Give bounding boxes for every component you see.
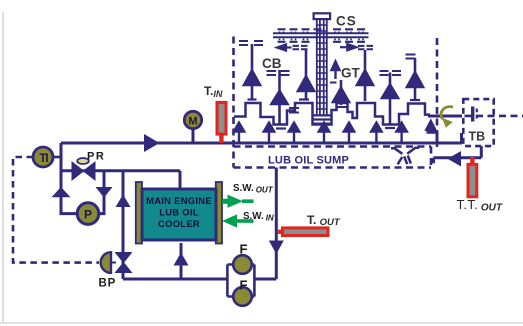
svg-text:F: F bbox=[240, 278, 248, 293]
crankpin cap lower bbox=[276, 127, 286, 129]
svg-text:BP: BP bbox=[99, 278, 117, 290]
filter F2 bbox=[233, 287, 252, 306]
pump P bbox=[77, 203, 99, 225]
rotation curved arrow (olive) bbox=[441, 107, 453, 128]
svg-text:CS: CS bbox=[336, 14, 357, 29]
feed arrow 7 bbox=[396, 123, 406, 142]
journal cap x306 bbox=[299, 98, 309, 100]
slide edge left bbox=[2, 12, 4, 322]
camshaft CS vertical drive shaft bbox=[312, 13, 333, 123]
feed arrow 8 bbox=[426, 121, 435, 130]
cooler right end plate bbox=[216, 182, 222, 244]
dashed line TB to right edge bbox=[465, 115, 523, 118]
svg-text:TI: TI bbox=[39, 153, 48, 165]
marks left of stem2 bbox=[293, 46, 308, 49]
bearing oil stems with arrows bbox=[244, 44, 423, 124]
feed arrow 4 bbox=[319, 123, 329, 142]
shaft ladder rungs bbox=[317, 25, 327, 109]
main journal cap upper-left bbox=[248, 98, 257, 100]
wire: crank end to TB bbox=[428, 115, 462, 118]
gallery feed arrows into engine bbox=[234, 121, 435, 142]
bearing dash marks (= =) bbox=[239, 41, 416, 83]
main engine lub oil cooler bbox=[136, 182, 222, 244]
arrow on main gallery (right) bbox=[144, 134, 160, 152]
crankshaft castellated profile bbox=[234, 100, 430, 129]
marks near stem x390 bbox=[380, 71, 402, 75]
thrust bearing symbol in TB box bbox=[473, 107, 477, 122]
journal mark x341 bbox=[337, 106, 347, 108]
marks right of cam arrow bbox=[358, 46, 373, 49]
cam timing arrow right bbox=[340, 44, 356, 50]
feed arrow 6 bbox=[371, 123, 381, 142]
mark under GT arrow bbox=[330, 82, 337, 84]
camshaft horizontal bar bbox=[273, 29, 369, 42]
crankpin stem (x341) bbox=[333, 80, 349, 105]
cooler shell bbox=[142, 189, 216, 240]
arrow up on BP riser bbox=[116, 195, 131, 208]
wire: TI connection stub bbox=[53, 156, 61, 159]
feed arrow 3 bbox=[289, 123, 299, 142]
engine crankcase dashed box bbox=[234, 37, 438, 168]
arrow left on TB drain bbox=[448, 151, 462, 167]
wire: pump discharge riser bbox=[61, 143, 78, 214]
flow arrows on pipes bbox=[52, 134, 462, 266]
svg-text:MAIN ENGINE: MAIN ENGINE bbox=[146, 195, 212, 206]
wire: PR / cooler-outlet header bbox=[61, 169, 180, 172]
wire: sump to TB supply bbox=[431, 133, 462, 143]
sea water in arrow (green) bbox=[222, 214, 254, 227]
svg-text:LUB OIL SUMP: LUB OIL SUMP bbox=[268, 155, 349, 167]
main bearing stem 4 (x415) bbox=[407, 58, 423, 101]
svg-text:M: M bbox=[188, 116, 197, 128]
thermometer T IN bbox=[217, 102, 226, 143]
svg-text:GT: GT bbox=[341, 66, 361, 81]
wire: BP bypass riser bbox=[122, 171, 125, 279]
main bearing stem 3 (x365) bbox=[357, 50, 373, 101]
svg-text:TB: TB bbox=[469, 130, 486, 144]
check arrow up on discharge riser bbox=[52, 187, 71, 197]
wire: crankcase end shelf bbox=[427, 132, 438, 143]
wire: bottom suction line bbox=[123, 278, 276, 281]
crankpin cap x390 bbox=[385, 127, 395, 129]
feed arrow 5 bbox=[344, 123, 354, 142]
svg-text:S.W.IN: S.W.IN bbox=[243, 211, 274, 223]
wire: main oil gallery line bbox=[61, 142, 431, 145]
svg-text:LUB OIL: LUB OIL bbox=[159, 206, 199, 217]
svg-text:P: P bbox=[84, 208, 92, 222]
wire: pump suction drop bbox=[98, 171, 104, 214]
thermometer T.T. OUT bbox=[468, 157, 477, 197]
motor gauge M bbox=[184, 111, 201, 141]
duplex filter loop bbox=[227, 265, 254, 297]
thrust bearing TB dashed box bbox=[463, 99, 493, 146]
main bearing stem 2 (x306) bbox=[298, 50, 314, 100]
marks above stem1 bbox=[239, 41, 263, 45]
cam timing arrow left bbox=[277, 44, 292, 50]
crankpin stem (x390) bbox=[382, 73, 398, 125]
svg-text:F: F bbox=[240, 242, 248, 257]
slide edge bottom bbox=[0, 322, 523, 324]
lub oil sump dashed box bbox=[234, 147, 432, 168]
marks above stem x415 bbox=[406, 55, 416, 59]
wire: sump suction downpipe bbox=[275, 168, 278, 280]
shaft top cap bbox=[314, 13, 331, 19]
marks below CB label bbox=[267, 71, 290, 75]
journal marks mid step bbox=[289, 108, 299, 113]
svg-text:CB: CB bbox=[262, 56, 282, 71]
main bearing stem 1 (x252) bbox=[244, 44, 260, 99]
crankpin stem CB (x279.5) bbox=[272, 70, 288, 124]
cooler left end plate bbox=[136, 182, 142, 244]
check arrow down on suction drop bbox=[96, 187, 113, 198]
pressure regulating valve PR bbox=[72, 158, 95, 180]
arrow up into cooler bottom bbox=[174, 253, 189, 266]
cam lobe marks above bar bbox=[278, 28, 366, 30]
tappet marks below bar bbox=[278, 41, 366, 43]
feed arrow 1 bbox=[234, 123, 244, 142]
filter F1 bbox=[233, 255, 252, 274]
thermometer T. OUT (horizontal) bbox=[278, 228, 328, 236]
svg-text:COOLER: COOLER bbox=[158, 218, 200, 229]
gear train GT arrow bbox=[332, 62, 340, 80]
wire: cooler bottom stem bbox=[180, 243, 183, 279]
sump strainer X symbol bbox=[391, 148, 419, 165]
shaft bottom bearing bbox=[312, 115, 333, 123]
wire: cooler top stem bbox=[179, 171, 182, 189]
bypass valve BP bbox=[101, 252, 132, 273]
svg-text:S.W.OUT: S.W.OUT bbox=[233, 183, 274, 195]
capillary dashed line TI to BP bbox=[13, 157, 99, 263]
arrow down on sump downpipe bbox=[269, 241, 284, 255]
feed arrow 2 bbox=[264, 123, 274, 142]
temperature transmitter TI bbox=[33, 147, 53, 167]
sea water out arrow (green) bbox=[222, 195, 254, 208]
wire: TB drain with step bbox=[431, 146, 481, 162]
journal cap x415 bbox=[410, 99, 420, 101]
svg-text:PR: PR bbox=[87, 151, 105, 163]
